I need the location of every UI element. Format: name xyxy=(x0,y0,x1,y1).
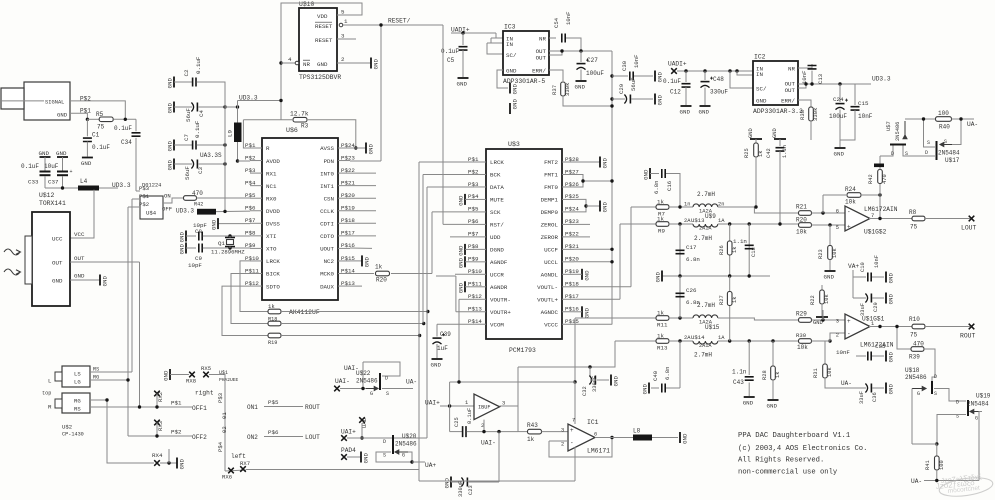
wire R30 jog xyxy=(830,333,845,341)
wire C16 to node xyxy=(666,174,680,208)
wire to C15 xyxy=(854,84,856,105)
svg-text:DEMP0: DEMP0 xyxy=(541,209,559,216)
svg-text:C29: C29 xyxy=(873,302,879,312)
svg-text:R38: R38 xyxy=(799,110,806,120)
ground at C3 xyxy=(173,159,175,170)
U$3 pin P$11 AGNDR xyxy=(474,286,486,288)
wire R31 to UA- node xyxy=(825,378,853,388)
svg-text:INT1: INT1 xyxy=(320,183,334,190)
svg-text:UD3.3: UD3.3 xyxy=(176,208,194,215)
svg-text:VOUTR+: VOUTR+ xyxy=(490,309,511,316)
svg-text:1.1n: 1.1n xyxy=(782,145,788,158)
svg-text:UAI-: UAI- xyxy=(335,378,350,385)
wire bottom rail xyxy=(419,480,575,482)
svg-text:U$12: U$12 xyxy=(39,192,55,199)
svg-text:GND: GND xyxy=(167,160,174,171)
regulator IC3 ADP3301AR-5 xyxy=(503,31,549,75)
output wire xyxy=(869,218,912,220)
wire R3 to pin R xyxy=(243,120,250,148)
ground at C32 xyxy=(610,375,612,386)
svg-text:56uF: 56uF xyxy=(630,78,637,91)
svg-text:L4: L4 xyxy=(80,178,88,185)
vertical SCK to R20 xyxy=(431,212,433,274)
capacitor C8 10pF xyxy=(199,232,202,241)
test pad RX6 X xyxy=(228,468,234,474)
svg-text:GND: GND xyxy=(179,244,186,255)
wire GND pin2 xyxy=(337,62,371,64)
ground below C24 xyxy=(835,147,846,149)
svg-text:GND: GND xyxy=(179,459,186,470)
U$6 pin P$1 R xyxy=(250,147,262,149)
svg-text:10nF: 10nF xyxy=(836,349,850,356)
resistor R8 75 xyxy=(912,216,925,221)
U$6 pin P$18 CDTI xyxy=(338,222,350,224)
feedback to output xyxy=(879,195,881,219)
wire UAI- to gate xyxy=(340,388,375,390)
svg-text:U$7: U$7 xyxy=(886,121,892,131)
svg-text:GND: GND xyxy=(512,99,519,110)
wire PDN to reset xyxy=(350,160,381,162)
wire C26 branch xyxy=(679,276,681,318)
svg-text:AGNDC: AGNDC xyxy=(541,309,559,316)
svg-text:+: + xyxy=(847,224,851,231)
wire UAD down xyxy=(361,423,363,438)
switch U$4 box xyxy=(140,196,163,219)
wire R10 to ROUT xyxy=(925,326,970,328)
svg-text:GND: GND xyxy=(680,109,691,116)
svg-text:2A: 2A xyxy=(684,218,691,224)
test pad PAD4 X xyxy=(341,454,347,460)
wire top to IC1 power xyxy=(574,382,576,424)
svg-text:GND: GND xyxy=(602,202,609,213)
svg-text:UA+: UA+ xyxy=(425,462,436,469)
test pad UAI- X xyxy=(334,386,340,392)
svg-text:UCCR: UCCR xyxy=(490,272,504,279)
ground below C39 xyxy=(432,358,443,360)
wire U$19 source down xyxy=(937,415,966,445)
inductor U$13 2.7mH xyxy=(693,224,718,227)
wire SCK bus xyxy=(432,211,474,213)
inductor U$9 2.7mH xyxy=(693,204,718,207)
svg-text:R43: R43 xyxy=(527,422,538,429)
stub UDD xyxy=(450,236,474,238)
junction supply rail/DVDD xyxy=(223,210,226,213)
wire RESET out xyxy=(339,23,343,27)
svg-text:100uF: 100uF xyxy=(829,113,847,120)
DAC U$3 PCM1793 xyxy=(486,149,562,339)
svg-text:VDD: VDD xyxy=(317,13,328,20)
svg-text:GND: GND xyxy=(506,68,517,75)
svg-text:D: D xyxy=(925,150,928,156)
svg-text:DEMP1: DEMP1 xyxy=(541,197,559,204)
wire IC1 pin2 xyxy=(549,440,568,442)
svg-text:LM6172AIN: LM6172AIN xyxy=(864,206,898,213)
svg-text:GND: GND xyxy=(772,128,778,138)
svg-text:10uF: 10uF xyxy=(44,163,59,170)
wire output to R39 xyxy=(897,327,911,350)
svg-text:VOUTL-: VOUTL- xyxy=(537,284,558,291)
svg-text:ON: ON xyxy=(164,193,171,200)
wire R27 branch xyxy=(729,276,731,341)
svg-text:C8: C8 xyxy=(195,228,202,235)
svg-text:C10: C10 xyxy=(860,262,866,272)
vertical BCK xyxy=(422,175,424,324)
U$6 pin P$6 DVDD xyxy=(250,210,262,212)
svg-text:TORX141: TORX141 xyxy=(39,200,66,207)
U$3 pin P$10 UCCR xyxy=(474,273,486,275)
svg-text:2N5484: 2N5484 xyxy=(967,401,989,408)
wire to C10 xyxy=(853,276,866,278)
wire MCK0 to R20 xyxy=(350,273,374,275)
svg-text:C36: C36 xyxy=(872,392,878,402)
svg-text:5: 5 xyxy=(341,9,345,16)
wire to switch U$1 xyxy=(209,375,225,472)
svg-text:100uF: 100uF xyxy=(586,70,604,77)
wire feedback left xyxy=(449,382,451,432)
wire NR xyxy=(281,62,295,64)
VA+ rail xyxy=(852,270,854,298)
svg-text:56uF: 56uF xyxy=(184,166,191,180)
U$3 pin P$7 UDD xyxy=(474,236,486,238)
U$3 pin P$6 RST/ xyxy=(474,223,486,225)
test pad RX3 X xyxy=(154,420,160,426)
svg-text:GND: GND xyxy=(211,219,218,230)
svg-text:GND: GND xyxy=(748,128,754,138)
svg-text:IC2: IC2 xyxy=(754,54,766,61)
U$3 pin P$9 AGNDF xyxy=(474,261,486,263)
capacitor C5 0.1uF xyxy=(459,47,468,50)
long vertical LRCK/bottom xyxy=(418,162,420,481)
ground below C27 xyxy=(576,80,587,82)
svg-text:IN: IN xyxy=(506,41,513,48)
resistor R20 xyxy=(376,271,390,276)
svg-text:R: R xyxy=(48,404,52,411)
wire U$18 source to U$19 drain xyxy=(934,389,966,402)
svg-text:6: 6 xyxy=(836,209,839,215)
U$3 pin P$26 FMT0 xyxy=(562,186,574,188)
svg-text:2N5486: 2N5486 xyxy=(356,378,378,385)
junction AVDD xyxy=(236,159,239,162)
wire U$13 to R20b xyxy=(718,223,799,225)
svg-text:56uF: 56uF xyxy=(185,108,192,122)
U$6 pin P$7 DVSS xyxy=(250,222,262,224)
U$6 pin P$5 RX0 xyxy=(250,197,262,199)
svg-text:GND: GND xyxy=(102,276,109,287)
svg-text:U$1G$2: U$1G$2 xyxy=(864,229,887,236)
svg-text:+: + xyxy=(70,169,73,175)
junction P$2/R5 xyxy=(124,118,127,121)
svg-text:BCK: BCK xyxy=(490,172,501,179)
svg-text:D: D xyxy=(934,374,937,380)
U$6 pin P$13 DAUX xyxy=(338,285,350,287)
svg-text:GND: GND xyxy=(81,160,92,167)
ground pad xyxy=(874,164,884,168)
wire node to R41 xyxy=(936,444,938,456)
wire NC2 to ground xyxy=(350,260,362,262)
svg-text:2A1A: 2A1A xyxy=(699,343,712,349)
svg-text:10nF: 10nF xyxy=(858,113,873,120)
stub ZEROL xyxy=(574,223,590,225)
resistor R22 10k xyxy=(821,285,823,290)
ground at AVSS xyxy=(365,143,367,154)
wire UA- to C36 xyxy=(853,387,866,389)
stub wire P$18 xyxy=(350,222,376,224)
U$6 pin P$14 MCK0 xyxy=(338,273,350,275)
svg-text:ZEROL: ZEROL xyxy=(541,222,559,229)
svg-text:75: 75 xyxy=(97,124,105,131)
wire C43 branch xyxy=(748,341,750,375)
svg-text:FMT1: FMT1 xyxy=(544,172,558,179)
svg-text:2A1A: 2A1A xyxy=(699,226,712,232)
inductor L8 xyxy=(633,435,652,441)
svg-text:NC2: NC2 xyxy=(324,258,335,265)
wire R9 to coil xyxy=(669,223,693,225)
svg-text:GND: GND xyxy=(888,384,895,395)
svg-text:IN: IN xyxy=(756,71,763,78)
svg-text:ROUT: ROUT xyxy=(305,404,320,411)
wire R20 to opamp xyxy=(812,224,846,226)
svg-text:GND: GND xyxy=(431,362,442,369)
svg-text:PCM1793: PCM1793 xyxy=(509,347,536,354)
wire BCK bus xyxy=(423,174,474,176)
test pad UAD X xyxy=(359,417,365,423)
svg-text:CDTO: CDTO xyxy=(320,233,334,240)
svg-text:C54: C54 xyxy=(553,17,560,28)
svg-text:OUT: OUT xyxy=(74,255,85,262)
wire to R40 xyxy=(924,118,936,120)
wire R13 feed xyxy=(518,341,615,367)
wire to C27 xyxy=(580,51,582,62)
svg-text:ERR/: ERR/ xyxy=(532,68,546,75)
wire U$17 source up xyxy=(924,119,936,147)
svg-text:GND: GND xyxy=(824,274,835,281)
svg-text:UA-: UA- xyxy=(406,379,417,386)
wire VOUTR- xyxy=(459,298,474,300)
svg-text:RS: RS xyxy=(93,367,99,373)
svg-text:P$4: P$4 xyxy=(217,441,224,452)
U$6 pin P$19 CCLK xyxy=(338,210,350,212)
resistor R41 100 xyxy=(935,456,940,470)
wire down to C23 xyxy=(498,432,500,482)
svg-text:non-commercial use only: non-commercial use only xyxy=(738,469,838,477)
wire IC2 GND to R38 xyxy=(798,100,811,107)
wire OUT down to OFF1 line xyxy=(139,262,141,407)
svg-text:U$9: U$9 xyxy=(705,213,716,220)
svg-text:10k: 10k xyxy=(832,248,838,258)
svg-text:AGNDR: AGNDR xyxy=(490,284,508,291)
ground at C29 xyxy=(654,94,656,105)
optical input arrow 2 xyxy=(4,269,20,275)
svg-text:U$6: U$6 xyxy=(286,127,298,134)
svg-text:left: left xyxy=(231,453,246,460)
capacitor C33 xyxy=(44,157,46,171)
svg-text:C5: C5 xyxy=(447,57,455,64)
ground below C43 xyxy=(744,396,755,398)
regulator IC2 ADP3301AR-3.3 xyxy=(753,61,798,105)
svg-text:6: 6 xyxy=(594,432,597,438)
U$6 pin P$22 INT0 xyxy=(338,172,350,174)
svg-text:U$22: U$22 xyxy=(356,370,371,377)
analog ground rail xyxy=(662,275,770,277)
svg-text:-: - xyxy=(847,209,851,216)
svg-text:2: 2 xyxy=(561,442,564,448)
stub wire P$17 xyxy=(350,235,376,237)
test pad RX7 X xyxy=(240,466,246,472)
svg-text:R: R xyxy=(266,145,270,152)
resistor R5 xyxy=(99,117,113,122)
output pad ROUT X xyxy=(969,324,975,330)
svg-text:RX8: RX8 xyxy=(186,378,196,385)
wire DVSS to ground xyxy=(218,223,250,225)
svg-text:GND: GND xyxy=(363,453,370,464)
svg-text:2N5486: 2N5486 xyxy=(395,441,417,448)
svg-text:+: + xyxy=(847,318,851,325)
U$6 pin P$24 AVSS xyxy=(338,147,350,149)
svg-text:RX5: RX5 xyxy=(201,365,211,372)
feedback riser xyxy=(822,195,824,213)
wire to R5 xyxy=(87,118,99,120)
svg-text:GND: GND xyxy=(57,111,68,118)
junction mute node xyxy=(935,442,938,445)
watermark stamp xyxy=(935,474,994,499)
svg-text:0.1uF: 0.1uF xyxy=(441,48,459,55)
svg-text:R23: R23 xyxy=(818,249,824,259)
svg-text:0.1uF: 0.1uF xyxy=(195,56,202,74)
svg-text:OUT: OUT xyxy=(785,87,796,94)
svg-text:10pF: 10pF xyxy=(188,262,202,269)
wire ERR to R37 xyxy=(549,70,563,81)
wire UAI+ to buffer xyxy=(440,405,474,407)
ground at DVSS xyxy=(217,218,219,229)
wire C54 to OUT rail xyxy=(566,38,581,50)
wire UD3.3 down to L9 xyxy=(237,101,239,124)
svg-text:R18: R18 xyxy=(268,317,277,323)
wire pin2 down xyxy=(483,420,485,432)
svg-text:right: right xyxy=(195,390,214,397)
svg-text:LOUT: LOUT xyxy=(305,434,320,441)
svg-text:GND: GND xyxy=(602,158,609,169)
svg-text:C32: C32 xyxy=(582,386,588,396)
wire VCOM to C39 xyxy=(437,323,474,325)
svg-text:GND: GND xyxy=(888,273,895,284)
vertical VOUTL- to R7 xyxy=(630,207,632,287)
wire VCCC to rail xyxy=(574,323,612,325)
resistor R17 1k xyxy=(268,309,281,314)
svg-text:UAI+: UAI+ xyxy=(341,429,356,436)
wire to IC3 IN2 xyxy=(491,38,503,43)
svg-text:PPA DAC Daughterboard V1.1: PPA DAC Daughterboard V1.1 xyxy=(738,432,850,440)
svg-text:UCCL: UCCL xyxy=(544,259,558,266)
wire R21 to opamp xyxy=(812,212,846,214)
U$6 pin P$16 UOUT xyxy=(338,247,350,249)
DGND grounds xyxy=(464,244,466,255)
svg-text:VCCC: VCCC xyxy=(544,321,558,328)
svg-text:0.1uF: 0.1uF xyxy=(21,163,39,170)
ground at RX8 xyxy=(169,369,171,380)
svg-text:INT0: INT0 xyxy=(320,170,334,177)
svg-text:2: 2 xyxy=(341,56,345,63)
svg-text:P$6: P$6 xyxy=(245,205,256,212)
svg-text:TPS3125DBVR: TPS3125DBVR xyxy=(299,74,341,81)
svg-text:C2: C2 xyxy=(183,69,190,76)
svg-text:U$10: U$10 xyxy=(299,1,315,8)
svg-text:01: 01 xyxy=(221,412,228,419)
svg-text:XTO: XTO xyxy=(266,246,277,253)
svg-text:NC1: NC1 xyxy=(266,183,277,190)
wire R8 to LOUT xyxy=(925,218,970,220)
svg-text:GND: GND xyxy=(39,150,50,157)
ground at C10 xyxy=(885,272,887,283)
vertical VOUTR+ riser xyxy=(455,276,457,312)
svg-text:C23: C23 xyxy=(468,485,474,495)
junction LRCK riser xyxy=(418,334,421,337)
svg-text:3: 3 xyxy=(561,428,564,434)
wire feedback top xyxy=(450,381,575,383)
stub wire P$20 xyxy=(350,197,376,199)
wire P$2 down to OFF2 xyxy=(127,207,129,436)
svg-text:C9: C9 xyxy=(195,255,202,262)
vertical RESET to RST xyxy=(442,25,444,224)
ground at U$10 xyxy=(370,58,372,69)
svg-text:RX2: RX2 xyxy=(157,392,164,402)
svg-text:P$23: P$23 xyxy=(341,154,355,161)
wire to R13 xyxy=(615,340,656,342)
crystal Q1 11.2896MHz xyxy=(227,240,234,245)
svg-text:R3: R3 xyxy=(301,123,309,130)
svg-text:top: top xyxy=(42,391,51,397)
svg-text:R37: R37 xyxy=(551,85,558,95)
ground below C5 xyxy=(458,77,469,79)
wire U$7 drain xyxy=(880,146,893,157)
svg-text:AGNDF: AGNDF xyxy=(490,259,508,266)
svg-text:1n: 1n xyxy=(684,202,690,208)
svg-text:UADI+: UADI+ xyxy=(668,61,687,68)
wire LRCK bus xyxy=(419,161,474,163)
svg-text:D: D xyxy=(383,439,386,445)
svg-text:6.8n: 6.8n xyxy=(686,299,700,306)
svg-text:R11: R11 xyxy=(657,322,668,329)
wire power to rail xyxy=(574,457,576,481)
wire R11 to coil xyxy=(669,317,693,319)
wire UCCF to rail xyxy=(574,248,612,250)
svg-text:C25: C25 xyxy=(454,417,460,427)
capacitor C1 xyxy=(86,119,88,136)
wire RST bus xyxy=(443,223,474,225)
wire BICK via resistor xyxy=(231,274,268,324)
svg-text:GND: GND xyxy=(834,151,845,158)
svg-text:U$4: U$4 xyxy=(146,210,157,217)
wire C9 to XTO xyxy=(203,247,250,249)
capacitor C12 xyxy=(682,84,691,87)
svg-text:C16: C16 xyxy=(666,181,673,191)
wire UD3.3 to TPS rail xyxy=(238,100,282,102)
capacitor C27 100uF xyxy=(577,63,586,65)
op-amp U$1G$2 LM6172AIN xyxy=(845,206,870,231)
svg-text:RESET/: RESET/ xyxy=(388,18,411,25)
wire U$7 source to U$17 xyxy=(903,146,929,157)
wire to rail xyxy=(583,180,612,182)
stub wire DAUX xyxy=(350,285,362,287)
svg-text:UA-: UA- xyxy=(841,380,852,387)
U$6 pin P$3 RX1 xyxy=(250,172,262,174)
U$6 pin P$20 CSN xyxy=(338,197,350,199)
capacitor C3 56uF xyxy=(196,160,198,169)
svg-text:GND: GND xyxy=(179,232,186,243)
wire IC2 OUT rail xyxy=(798,83,855,85)
test pad RX4 X xyxy=(154,460,160,466)
svg-text:UA-: UA- xyxy=(967,121,978,128)
wire R25 to U$9 line xyxy=(755,157,757,207)
